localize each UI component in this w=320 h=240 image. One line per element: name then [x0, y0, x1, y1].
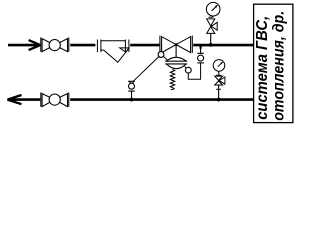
three-way gauge cock (supply) [207, 19, 218, 34]
wire supply pipe arrow shaft [8, 44, 39, 47]
wire cock to supply pipe [210, 33, 212, 43]
pressure gauge PI2 (return) [213, 60, 225, 76]
wire impulse down and left to right port [188, 63, 200, 79]
needle valve K1 on impulse line [128, 81, 135, 98]
diaphragm actuator [165, 57, 187, 68]
actuator spring [170, 69, 175, 90]
wire supply pipe: control valve to box [193, 44, 253, 47]
svg-text:отопления, др.: отопления, др. [271, 11, 288, 121]
wire return pipe to box [70, 98, 253, 101]
supply flow arrow [29, 40, 41, 50]
pressure gauge PI1 (supply) [206, 2, 220, 17]
svg-text:система ГВС,: система ГВС, [254, 16, 271, 120]
needle valve K2 on impulse line [197, 53, 204, 63]
valve center dot [175, 43, 178, 46]
ball valve V2 (return) [41, 92, 69, 107]
wire cock to return pipe [218, 85, 220, 99]
return flow arrow [7, 95, 21, 104]
wire return pipe arrow shaft [10, 98, 40, 101]
junction on supply pipe [209, 43, 213, 47]
consumer systems box [254, 4, 293, 122]
valve stem [175, 45, 177, 57]
impulse chamber port (left) [158, 52, 164, 58]
wire supply pipe: valve to strainer [70, 44, 95, 47]
three-way gauge cock (return) [215, 76, 225, 89]
link to actuator [185, 66, 187, 68]
link to actuator [163, 56, 167, 60]
junction on return pipe [217, 98, 221, 102]
impulse line (supply pipe to right port) [200, 46, 202, 49]
wire supply pipe: strainer to control valve [130, 44, 159, 47]
ball valve V1 (supply) [41, 37, 69, 52]
strainer F1 [97, 40, 128, 63]
impulse chamber port (right) [185, 67, 191, 73]
junction on return pipe [130, 98, 134, 102]
impulse line (return pipe to left port) [133, 57, 159, 82]
pressure regulator control valve U1 [160, 36, 192, 53]
